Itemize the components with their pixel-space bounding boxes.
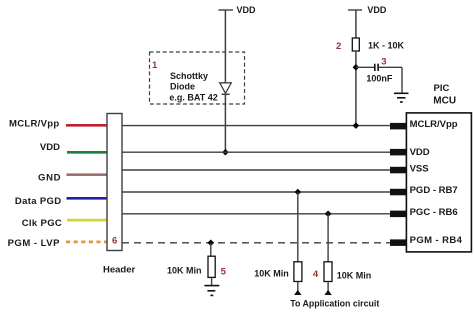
svg-text:2: 2 xyxy=(336,41,341,52)
svg-text:100nF: 100nF xyxy=(366,74,393,84)
wire PGC junction down to R4b xyxy=(327,214,329,262)
svg-text:To Application circuit: To Application circuit xyxy=(290,298,379,308)
MCU label PIC MCU xyxy=(433,83,456,106)
wire PGM (orange dashed) xyxy=(66,241,107,244)
wire header pin2 to MCU VDD xyxy=(122,151,390,153)
resistor R2 1K-10K xyxy=(352,38,359,51)
junction dot PGD / R4a xyxy=(295,189,302,196)
wire header pin1 to MCU MCLR xyxy=(122,125,390,127)
junction dot on VDD wire xyxy=(222,149,229,156)
wire GND (mauve) xyxy=(67,173,108,176)
MCU U1 body xyxy=(406,113,471,252)
wire PGD junction down to R4a xyxy=(297,192,299,262)
svg-text:MCLR/Vpp: MCLR/Vpp xyxy=(410,119,458,130)
svg-text:VDD: VDD xyxy=(367,5,387,15)
svg-text:PGM - RB4: PGM - RB4 xyxy=(410,235,463,246)
svg-text:Schottky: Schottky xyxy=(170,71,208,81)
junction dot MCLR / R2 xyxy=(353,122,360,129)
wire from VDD bar down to resistor R2 xyxy=(355,10,357,38)
junction dot at R2 / C3 node xyxy=(353,64,360,71)
resistor R4a 10K Min xyxy=(294,262,302,282)
wire from VDD bar down to diode xyxy=(224,10,226,83)
wire header pin4 to MCU PGD xyxy=(122,191,390,193)
svg-text:Header: Header xyxy=(103,265,136,276)
resistor R5 10K Min xyxy=(208,256,215,277)
svg-text:PGC - RB6: PGC - RB6 xyxy=(410,207,458,218)
pin PGD-RB7 (MCU pin 4) xyxy=(390,189,406,196)
svg-text:4: 4 xyxy=(313,269,319,280)
svg-text:Data PGD: Data PGD xyxy=(15,196,62,207)
pin PGC-RB6 (MCU pin 5) xyxy=(390,211,406,218)
wire from diode cathode down to VDD net xyxy=(224,94,226,152)
svg-text:PIC: PIC xyxy=(434,83,450,94)
wire VDD (green) xyxy=(67,151,107,154)
wire PGC (yellow) xyxy=(67,219,107,222)
connector J1 header box xyxy=(107,114,122,251)
wire PGD (blue) xyxy=(67,197,108,200)
svg-text:VDD: VDD xyxy=(410,147,430,158)
power symbol VDD (left) xyxy=(218,5,256,15)
junction dot PGC / R4b xyxy=(325,211,332,218)
svg-text:10K Min: 10K Min xyxy=(254,268,289,278)
svg-text:PGM - LVP: PGM - LVP xyxy=(8,238,61,249)
dashed outline box 1 (Schottky diode note) xyxy=(150,52,245,104)
ground (R5) xyxy=(204,286,219,296)
wire from node to capacitor C3 xyxy=(356,66,374,68)
pin VDD (MCU pin 2) xyxy=(390,149,406,156)
wire from R2 down to MCLR wire xyxy=(355,51,357,126)
svg-text:VSS: VSS xyxy=(410,164,429,175)
wire header pin3 to MCU VSS xyxy=(122,169,390,171)
capacitor C3 100nF xyxy=(375,64,378,71)
svg-text:5: 5 xyxy=(221,267,227,278)
wire R5 to ground xyxy=(211,277,213,285)
svg-text:Diode: Diode xyxy=(170,82,195,92)
wire R4a to application terminal xyxy=(297,282,299,292)
svg-text:PGD - RB7: PGD - RB7 xyxy=(410,185,458,196)
wire header pin6 to MCU PGM (dashed LVP) xyxy=(122,242,390,244)
svg-text:Clk PGC: Clk PGC xyxy=(22,218,62,229)
resistor R4b 10K Min xyxy=(324,262,332,282)
terminal arrow (R4a) xyxy=(294,290,301,295)
terminal arrow (R4b) xyxy=(324,290,331,295)
svg-text:MCLR/Vpp: MCLR/Vpp xyxy=(9,118,59,129)
ground (C3) xyxy=(394,93,409,102)
wire header pin5 to MCU PGC xyxy=(122,213,390,215)
pin MCLR/Vpp (MCU pin 1) xyxy=(390,123,406,129)
pin PGM-RB4 (MCU pin 6) xyxy=(390,239,406,246)
svg-text:10K Min: 10K Min xyxy=(337,270,372,280)
svg-text:1K - 10K: 1K - 10K xyxy=(368,40,405,50)
wire from C3 to ground xyxy=(379,67,402,93)
wire R4b to application terminal xyxy=(327,282,329,292)
junction dot PGM / R5 xyxy=(208,240,215,247)
svg-text:1: 1 xyxy=(152,60,158,71)
svg-text:10K Min: 10K Min xyxy=(167,266,202,276)
pin VSS (MCU pin 3) xyxy=(390,167,406,174)
wire MCLR (red) xyxy=(66,124,107,127)
power symbol VDD (right) xyxy=(348,5,387,15)
svg-text:e.g. BAT 42: e.g. BAT 42 xyxy=(169,92,217,102)
wire PGM junction down to R5 xyxy=(210,243,212,256)
svg-text:3: 3 xyxy=(381,57,386,68)
svg-text:6: 6 xyxy=(112,235,117,246)
svg-text:MCU: MCU xyxy=(433,95,456,106)
svg-text:GND: GND xyxy=(38,173,61,184)
svg-text:VDD: VDD xyxy=(40,142,60,153)
note text: Schottky Diode e.g. BAT 42 xyxy=(169,71,217,102)
svg-text:VDD: VDD xyxy=(237,5,257,15)
diode D1 (Schottky) xyxy=(220,83,232,95)
